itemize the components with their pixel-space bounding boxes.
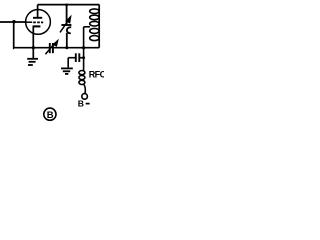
- ground G1: [27, 59, 38, 65]
- node cap lead junction: [82, 56, 85, 59]
- tube V1 plate bar: [33, 17, 42, 19]
- capacitor C1 left plate: [49, 43, 51, 53]
- tube V1 plate lead: [37, 5, 39, 18]
- node tap/rail junction: [82, 46, 85, 49]
- tube V1 grid dashes: [33, 21, 43, 23]
- label B- dash: [86, 103, 90, 105]
- wire plate top rail: [38, 4, 100, 6]
- figure label (B) circle: [44, 108, 56, 120]
- capacitor C2 top lead: [66, 5, 68, 24]
- inductor L1 turns: [90, 9, 99, 41]
- wire bottom rail right: [53, 47, 99, 49]
- tube V1 envelope: [26, 10, 51, 35]
- wire left vertical: [13, 22, 15, 48]
- wire coil tap: [84, 26, 90, 28]
- capacitor C1 right plate: [52, 43, 54, 53]
- capacitor C3 right plate: [78, 53, 80, 62]
- capacitor C2 bottom lead: [66, 33, 68, 48]
- node top rail junction: [65, 4, 68, 7]
- capacitor C3 left lead: [68, 57, 76, 59]
- tube V1 grid lead: [25, 21, 32, 23]
- wire bottom rail left: [13, 47, 49, 49]
- capacitor C1 arrowhead: [52, 39, 58, 47]
- inductor RFC turns: [79, 71, 85, 85]
- wire to ground G2: [67, 58, 69, 68]
- wire grid line left: [0, 21, 25, 23]
- capacitor C2 curved rotor plate: [67, 27, 71, 33]
- capacitor C3 left plate: [75, 53, 77, 62]
- capacitor C2 arrowhead: [65, 15, 71, 24]
- wire cathode lead down: [32, 26, 34, 58]
- svg-text:RFC: RFC: [89, 69, 104, 79]
- node grid junction dot: [12, 20, 15, 23]
- capacitor C2 fixed plate: [61, 24, 71, 26]
- capacitor C3 right lead: [79, 57, 83, 59]
- svg-text:B: B: [78, 99, 84, 109]
- inductor L1 right side wire: [98, 8, 100, 48]
- tube V1 cathode bar: [33, 25, 41, 27]
- ground G2: [61, 68, 73, 74]
- wire RFC to terminal: [84, 85, 86, 94]
- capacitor C1 arrow: [45, 43, 55, 54]
- node C2/rail junction: [65, 46, 68, 49]
- capacitor C2 arrow: [60, 20, 69, 32]
- terminal B- circle: [82, 94, 88, 100]
- inductor L1 top corner: [98, 5, 100, 9]
- node cathode/rail junction: [32, 46, 35, 49]
- svg-text:B: B: [47, 110, 54, 121]
- wire tap vertical: [83, 27, 85, 71]
